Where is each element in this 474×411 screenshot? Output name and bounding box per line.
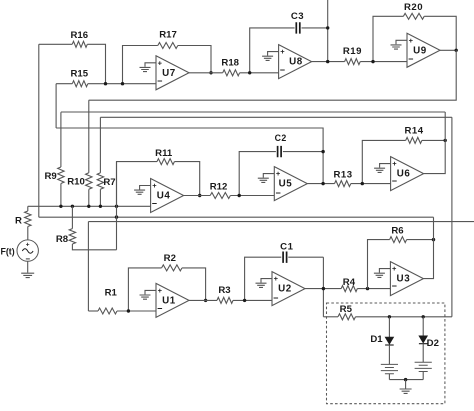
battery B1 bbox=[381, 364, 398, 379]
op-amp U6 bbox=[374, 157, 424, 191]
wire bbox=[55, 84, 57, 128]
diode D2 bbox=[419, 317, 439, 362]
svg-text:R9: R9 bbox=[44, 171, 56, 182]
resistor R19 bbox=[343, 46, 407, 64]
resistor R8 bbox=[56, 206, 117, 250]
svg-text:U6: U6 bbox=[397, 169, 411, 180]
node C2 right junction bbox=[321, 150, 324, 153]
node R6 right junction bbox=[432, 238, 435, 241]
resistor R13 bbox=[333, 170, 390, 187]
svg-text:C2: C2 bbox=[275, 133, 287, 143]
svg-text:−: − bbox=[280, 65, 285, 75]
node U9 output junction bbox=[455, 49, 458, 52]
wire U4 input line bbox=[28, 205, 151, 207]
node U2 output junction bbox=[322, 287, 325, 290]
resistor R5 bbox=[323, 304, 452, 320]
resistor R10 bbox=[67, 100, 92, 206]
op-amp U3 bbox=[374, 262, 424, 296]
svg-text:+: + bbox=[158, 286, 163, 295]
resistor R1 bbox=[88, 287, 156, 314]
wire U1 output bbox=[189, 299, 217, 301]
wire bbox=[27, 261, 29, 272]
svg-text:R11: R11 bbox=[155, 148, 173, 159]
resistor R20 bbox=[373, 2, 456, 62]
op-amp U7 bbox=[140, 56, 190, 90]
svg-text:D1: D1 bbox=[370, 334, 383, 345]
svg-text:F(t): F(t) bbox=[1, 247, 15, 257]
svg-text:R3: R3 bbox=[218, 285, 230, 296]
svg-text:C3: C3 bbox=[291, 11, 304, 22]
svg-text:+: + bbox=[152, 181, 157, 190]
wire clamp-to-R1 bus bbox=[88, 221, 474, 223]
capacitor C2 bbox=[239, 133, 323, 195]
svg-text:R18: R18 bbox=[221, 58, 239, 69]
svg-text:U5: U5 bbox=[279, 179, 293, 190]
node R11 left junction bbox=[115, 205, 118, 208]
svg-text:U2: U2 bbox=[278, 284, 292, 295]
svg-text:+: + bbox=[274, 274, 279, 283]
ground bbox=[21, 273, 34, 277]
svg-text:R4: R4 bbox=[343, 277, 356, 288]
svg-text:R5: R5 bbox=[340, 304, 353, 315]
node R2 left junction bbox=[127, 309, 130, 312]
node U8 output junction bbox=[326, 60, 329, 63]
wire bbox=[327, 0, 329, 62]
resistor R11 bbox=[117, 148, 200, 206]
node R17 right junction bbox=[209, 71, 212, 74]
svg-text:R10: R10 bbox=[67, 177, 85, 188]
limiter box bbox=[327, 303, 445, 404]
resistor R bbox=[15, 206, 31, 240]
diode D1 bbox=[370, 317, 393, 364]
node R9 bottom bbox=[59, 205, 62, 208]
resistor R17 bbox=[123, 30, 212, 84]
node battery common bbox=[404, 378, 407, 381]
svg-text:R20: R20 bbox=[404, 2, 423, 13]
wire R11 vertical bbox=[116, 162, 118, 250]
svg-text:U3: U3 bbox=[397, 274, 411, 285]
svg-text:R15: R15 bbox=[70, 69, 88, 80]
svg-text:R1: R1 bbox=[105, 287, 118, 298]
node R6 left junction bbox=[366, 287, 369, 290]
node C1 left junction bbox=[243, 299, 246, 302]
svg-text:U8: U8 bbox=[289, 57, 303, 68]
wire U6 output bbox=[424, 112, 446, 174]
svg-text:C1: C1 bbox=[280, 242, 293, 253]
node R11 right junction bbox=[198, 194, 201, 197]
svg-text:R13: R13 bbox=[333, 170, 352, 181]
resistor R12 bbox=[210, 181, 275, 198]
wire U4 output bbox=[184, 195, 211, 197]
svg-text:R12: R12 bbox=[210, 181, 228, 192]
op-amp U9 bbox=[391, 33, 441, 67]
node R8 top bbox=[71, 205, 74, 208]
node U5 output junction bbox=[321, 182, 324, 185]
wire U5 feedback bus bbox=[56, 128, 323, 184]
svg-text:+: + bbox=[158, 58, 163, 67]
node C3 right junction bbox=[326, 26, 329, 29]
svg-text:R17: R17 bbox=[159, 30, 177, 41]
svg-text:U7: U7 bbox=[162, 68, 176, 79]
svg-text:R7: R7 bbox=[103, 177, 115, 188]
node D2 top bbox=[422, 315, 425, 318]
wire U8 output bbox=[312, 61, 345, 63]
svg-text:U1: U1 bbox=[162, 295, 176, 306]
source F(t) bbox=[1, 240, 39, 263]
wire bbox=[38, 44, 40, 217]
wire U2 output bbox=[305, 288, 341, 290]
svg-text:+: + bbox=[280, 47, 285, 56]
battery B2 bbox=[415, 362, 432, 379]
svg-text:+: + bbox=[26, 242, 30, 249]
svg-text:+: + bbox=[392, 159, 397, 168]
resistor R9 bbox=[44, 112, 64, 206]
wire U6 feedback bus bbox=[61, 111, 445, 113]
svg-text:D2: D2 bbox=[427, 338, 439, 349]
svg-text:R16: R16 bbox=[70, 30, 88, 41]
node R17 left junction bbox=[121, 82, 124, 85]
resistor R2 bbox=[128, 253, 205, 311]
svg-text:R6: R6 bbox=[391, 225, 403, 236]
resistor R7 bbox=[97, 117, 115, 206]
resistor R6 bbox=[368, 225, 434, 288]
wire U9 output bbox=[440, 49, 456, 51]
op-amp U8 bbox=[262, 45, 312, 79]
node R7 bottom bbox=[99, 205, 102, 208]
wire U7 output bbox=[189, 72, 223, 74]
node R15-R16 junction bbox=[104, 82, 107, 85]
op-amp U4 bbox=[134, 179, 184, 213]
node R14 right junction bbox=[444, 139, 447, 142]
node C3 left junction bbox=[248, 71, 251, 74]
node D1 top bbox=[388, 315, 391, 318]
node C2 left junction bbox=[238, 194, 241, 197]
svg-text:R8: R8 bbox=[56, 234, 69, 245]
wire U3 output bbox=[423, 217, 433, 278]
node R2 right junction bbox=[204, 299, 207, 302]
node R14 left junction bbox=[361, 182, 364, 185]
svg-text:+: + bbox=[276, 169, 281, 178]
svg-text:R: R bbox=[15, 216, 22, 227]
svg-text:+: + bbox=[392, 264, 397, 273]
op-amp U2 bbox=[256, 272, 306, 306]
node R10 bottom bbox=[87, 205, 90, 208]
svg-text:U9: U9 bbox=[413, 45, 427, 56]
wire bbox=[322, 257, 324, 317]
node R20 left junction bbox=[371, 60, 374, 63]
svg-text:+: + bbox=[409, 36, 414, 45]
wire U3 feedback bus bbox=[39, 216, 434, 218]
resistor R15 bbox=[56, 69, 156, 87]
wire U9 feedback bus bbox=[89, 50, 457, 100]
wire clamp feedback bus bbox=[100, 116, 452, 118]
capacitor C1 bbox=[245, 242, 324, 301]
ground bbox=[400, 380, 412, 394]
svg-text:R14: R14 bbox=[404, 126, 423, 137]
capacitor C3 bbox=[250, 11, 328, 73]
resistor R18 bbox=[221, 58, 278, 76]
op-amp U1 bbox=[140, 283, 190, 317]
wire bbox=[389, 379, 423, 381]
node bus junction bbox=[115, 215, 118, 218]
svg-text:R2: R2 bbox=[164, 253, 176, 264]
resistor R3 bbox=[217, 285, 272, 304]
resistor R16 bbox=[39, 30, 106, 84]
wire bbox=[451, 117, 453, 316]
svg-text:R19: R19 bbox=[343, 46, 362, 57]
svg-text:U4: U4 bbox=[157, 191, 171, 202]
resistor R4 bbox=[341, 277, 390, 292]
wire U5 output bbox=[307, 183, 334, 185]
resistor R14 bbox=[362, 126, 445, 184]
wire bbox=[87, 222, 89, 311]
op-amp U5 bbox=[258, 167, 308, 201]
